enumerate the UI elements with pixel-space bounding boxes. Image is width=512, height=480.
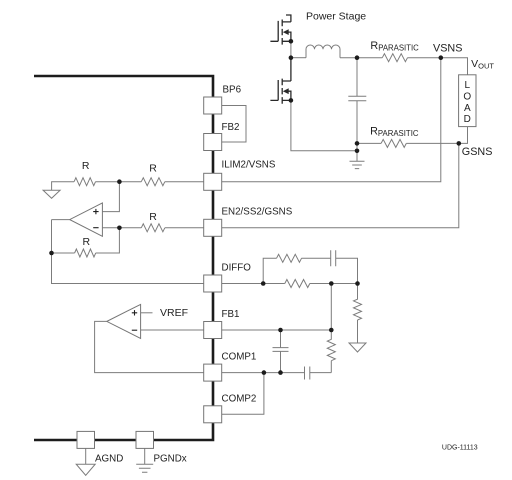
svg-text:FB1: FB1: [222, 309, 240, 320]
op-amp U1 (difference amp, pointing left): [70, 203, 103, 236]
junction Q2 source: [289, 98, 294, 103]
resistor (top branch): [277, 254, 302, 262]
wire COMP1 row: [222, 372, 281, 374]
svg-text:VOUT: VOUT: [471, 58, 494, 71]
wire VREF stub: [141, 312, 153, 314]
transistor Q2 (low-side MOSFET): [270, 58, 291, 104]
junction Q1 source: [289, 39, 294, 44]
svg-text:AGND: AGND: [95, 454, 123, 465]
ground (triangle, AGND): [76, 464, 95, 475]
junction GSNS node: [457, 141, 462, 146]
ground (earth, power stage): [350, 161, 365, 168]
svg-text:GSNS: GSNS: [462, 146, 493, 158]
resistor (FB1 node down): [327, 330, 335, 373]
wire DIFFO top branch: [263, 258, 357, 283]
junction cap top node: [355, 55, 360, 60]
wire GSNS row: [357, 142, 459, 144]
pin FB1: [204, 322, 222, 339]
load block: [459, 75, 476, 127]
junction node C: [329, 281, 334, 286]
wire node to op-amp + input: [102, 182, 119, 212]
svg-text:R: R: [149, 211, 157, 223]
svg-text:VREF: VREF: [160, 307, 188, 319]
svg-text:R: R: [82, 160, 90, 172]
junction node D (FB1 row): [329, 328, 334, 333]
wire switch node to inductor: [291, 57, 306, 59]
svg-text:PGNDx: PGNDx: [154, 454, 187, 465]
capacitor (COMP1 series): [281, 367, 332, 380]
svg-text:D: D: [464, 114, 471, 125]
junction ground node: [355, 149, 360, 154]
pin PGNDx: [136, 431, 154, 448]
pin COMP1: [204, 364, 222, 381]
wire cap bottom to ground node: [356, 143, 358, 161]
wire U2 minus input to FB1: [141, 329, 204, 331]
resistor R (ILIM2 to node): [141, 178, 165, 186]
junction node (EN2 row / minus input): [117, 226, 122, 231]
pin BP6: [204, 97, 222, 114]
wire FB1 row: [222, 329, 332, 331]
pin COMP2: [204, 406, 222, 423]
svg-text:DIFFO: DIFFO: [222, 262, 252, 273]
svg-text:A: A: [464, 103, 471, 114]
wire COMP2 to COMP1 row: [222, 373, 264, 415]
svg-text:O: O: [463, 91, 471, 102]
wire VSNS to VOUT / LOAD top: [441, 58, 468, 75]
svg-text:FB2: FB2: [222, 122, 240, 133]
wire Q1 source to switch node: [290, 41, 292, 57]
wire BP6 to FB2 loop: [222, 106, 246, 143]
IC boundary (thick outline): [34, 76, 213, 440]
svg-text:Power Stage: Power Stage: [306, 10, 366, 22]
wire DIFFO row: [222, 283, 358, 285]
svg-text:RPARASITIC: RPARASITIC: [370, 125, 419, 138]
pin AGND: [77, 431, 95, 448]
svg-text:RPARASITIC: RPARASITIC: [370, 40, 419, 53]
resistor RPARASITIC (bottom): [381, 139, 406, 147]
wire EN2 row left: [102, 227, 203, 229]
wire ILIM2/VSNS row left: [52, 182, 204, 191]
svg-text:COMP1: COMP1: [222, 351, 257, 362]
svg-text:EN2/SS2/GSNS: EN2/SS2/GSNS: [222, 206, 293, 217]
transistor Q1 (high-side MOSFET): [270, 15, 291, 45]
svg-text:L: L: [465, 80, 471, 91]
pin EN2/SS2/GSNS: [204, 219, 222, 236]
wire inductor to VSNS node: [340, 57, 441, 59]
junction node (ILIM2 row): [117, 179, 122, 184]
capacitor (FB1 to COMP1): [273, 330, 289, 373]
svg-text:VSNS: VSNS: [433, 43, 462, 55]
svg-text:BP6: BP6: [223, 85, 242, 96]
resistor R (node to ground): [74, 178, 95, 186]
ground (earth, PGNDx): [136, 464, 153, 472]
wire VSNS sense line to ILIM2/VSNS: [222, 58, 441, 182]
pin ILIM2/VSNS: [204, 173, 222, 190]
junction VSNS node: [439, 55, 444, 60]
resistor R (feedback): [75, 249, 96, 257]
wire U2 output to COMP1: [95, 321, 204, 372]
svg-text:R: R: [149, 162, 157, 174]
wire GSNS sense line to EN2/SS2/GSNS: [222, 143, 459, 227]
svg-text:ILIM2/VSNS: ILIM2/VSNS: [222, 159, 276, 170]
wire op-amp U1 output to DIFFO: [52, 220, 204, 284]
junction node F (COMP1 row): [278, 370, 283, 375]
svg-text:R: R: [83, 236, 91, 248]
op-amp U2 (error amp, pointing left): [107, 304, 141, 338]
resistor R (EN2 row): [141, 224, 165, 232]
pin DIFFO: [204, 275, 222, 292]
wire LOAD bottom to GSNS node: [459, 127, 468, 144]
wire PGNDx stem: [144, 448, 146, 464]
wire node C down to FB1 row: [330, 284, 332, 331]
pin FB2: [204, 134, 222, 151]
capacitor C (output): [348, 58, 366, 144]
resistor (DIFFO row): [285, 280, 310, 288]
capacitor (top branch, series): [331, 250, 336, 266]
ground (triangle, left): [43, 190, 60, 198]
junction node (U1 output): [49, 251, 54, 256]
junction GSNS row node: [355, 141, 360, 146]
wire feedback (minus node down): [52, 220, 120, 253]
junction node B: [355, 281, 360, 286]
ground (triangle, comp network): [349, 343, 366, 352]
wire Q2 source to ground node: [291, 100, 357, 150]
svg-text:UDG-11113: UDG-11113: [442, 445, 478, 452]
junction node G (COMP1 row): [262, 370, 267, 375]
junction switch node: [289, 55, 294, 60]
resistor RPARASITIC (top): [382, 54, 407, 62]
junction node E (FB1 row): [278, 328, 283, 333]
wire AGND stem: [85, 448, 87, 464]
resistor (node B to ground): [354, 284, 362, 344]
svg-text:COMP2: COMP2: [222, 393, 257, 404]
junction node A (DIFFO): [261, 281, 266, 286]
inductor L: [306, 45, 340, 58]
